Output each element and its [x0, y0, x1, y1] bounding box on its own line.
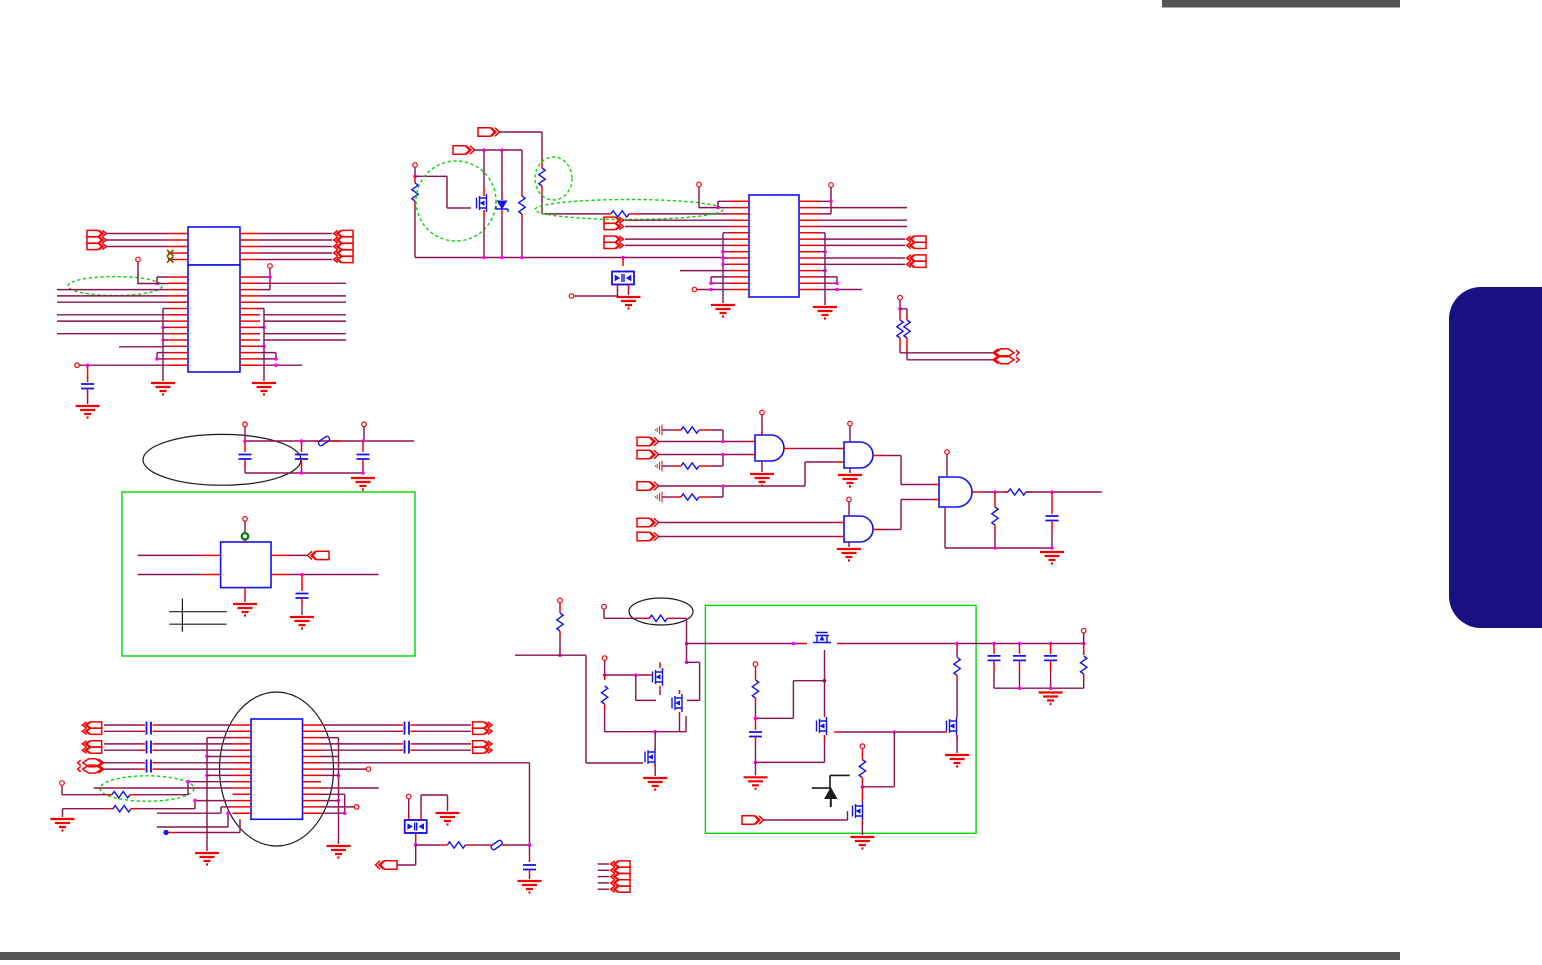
wire	[699, 187, 729, 208]
wire	[993, 644, 995, 655]
junction	[500, 256, 504, 260]
wire	[130, 794, 137, 796]
wire	[862, 732, 894, 787]
ground GND-H1	[643, 778, 667, 790]
wire	[604, 704, 606, 710]
ground GND-G4	[436, 813, 460, 825]
junction	[268, 275, 272, 279]
wire	[838, 449, 881, 463]
and-gate U5B	[844, 442, 873, 468]
ic U1 upper section	[188, 227, 240, 265]
wire	[944, 507, 946, 548]
power pin node V16	[602, 604, 607, 609]
wire	[260, 301, 346, 303]
wire	[140, 730, 145, 732]
junction	[262, 326, 266, 330]
wire	[314, 440, 341, 442]
transistor Q5	[813, 633, 831, 643]
highlight circle (green) around R2	[535, 157, 572, 200]
wire	[260, 233, 332, 235]
capacitor C11	[1044, 656, 1057, 661]
wire	[756, 681, 825, 719]
junction	[709, 288, 713, 292]
and-gate U5D	[939, 477, 972, 507]
wire	[679, 690, 681, 716]
connector G4a	[473, 722, 492, 728]
wire	[521, 218, 523, 258]
wire	[861, 787, 863, 824]
wire	[416, 844, 440, 846]
wire	[598, 869, 609, 871]
power pin node V3	[413, 163, 418, 168]
wire	[848, 542, 850, 547]
junction	[1018, 642, 1022, 646]
wire	[686, 644, 688, 663]
wire	[321, 730, 398, 732]
zener diode D1	[496, 201, 508, 213]
wire	[1083, 680, 1085, 688]
ic U3	[221, 542, 271, 588]
wire	[321, 806, 354, 808]
connector G3b	[78, 765, 104, 773]
connector J1 pin 3	[87, 243, 106, 249]
wire	[800, 643, 844, 645]
power pin U5D VCC	[945, 450, 950, 455]
wire	[321, 738, 339, 801]
bottom status bar	[0, 952, 1400, 960]
wire	[541, 194, 543, 214]
wire	[321, 787, 379, 789]
wire	[604, 675, 606, 680]
wire	[1083, 644, 1085, 656]
wire	[604, 609, 643, 618]
wire	[244, 521, 246, 533]
wire	[244, 468, 246, 473]
wire	[848, 502, 850, 516]
wire	[153, 762, 158, 764]
junction	[1050, 546, 1054, 550]
wire	[838, 523, 881, 537]
wire	[153, 724, 158, 726]
junction	[992, 642, 996, 646]
capacitor C1	[81, 384, 94, 389]
junction	[274, 363, 278, 367]
wire	[131, 808, 138, 810]
wire	[793, 448, 838, 450]
connector G3a	[78, 759, 104, 767]
junction	[155, 282, 159, 286]
wire	[501, 196, 503, 214]
wire	[994, 492, 996, 507]
wire	[488, 844, 491, 846]
wire	[163, 309, 168, 347]
pin stubs	[168, 234, 188, 260]
junction	[361, 439, 365, 443]
wire	[414, 201, 416, 206]
wire	[605, 710, 686, 732]
wire	[994, 525, 996, 530]
ferrite bead L1	[318, 436, 331, 447]
junction	[823, 269, 827, 273]
connector HX1a	[993, 349, 1019, 357]
capacitor CG4	[405, 722, 410, 735]
wire	[515, 655, 643, 763]
wire	[662, 496, 674, 498]
wire	[824, 714, 826, 740]
ground GND-F2	[838, 475, 862, 487]
wire	[153, 768, 158, 770]
wire	[994, 530, 996, 548]
wire	[415, 833, 417, 841]
junction	[86, 363, 90, 367]
wire	[598, 863, 609, 865]
wire	[1004, 491, 1008, 493]
junction	[1050, 490, 1054, 494]
wire	[637, 213, 729, 215]
wire	[605, 674, 648, 676]
junction	[361, 471, 365, 475]
wire	[834, 731, 840, 733]
ground GND-A2	[76, 406, 100, 418]
wire	[415, 257, 723, 259]
junction	[754, 761, 758, 765]
wire	[574, 291, 618, 296]
wire	[628, 291, 630, 295]
wire	[483, 218, 485, 258]
wire	[819, 208, 907, 227]
wire	[881, 456, 933, 485]
wire	[202, 555, 221, 574]
ground GND-F3	[837, 549, 861, 561]
wire	[712, 486, 723, 497]
wire	[654, 768, 656, 776]
power pin node V14	[406, 794, 411, 799]
highlight ellipse (black) around U4	[220, 692, 334, 846]
power pin node V4	[697, 182, 702, 187]
junction	[205, 774, 209, 778]
wire	[57, 320, 168, 322]
wire	[411, 730, 416, 732]
wire	[840, 731, 944, 733]
wire	[529, 856, 531, 862]
wire	[658, 454, 750, 456]
wire	[484, 150, 522, 196]
wire	[415, 749, 471, 751]
wire	[301, 441, 303, 452]
flag net IN_A	[637, 437, 659, 445]
wire	[260, 282, 346, 284]
junction	[721, 263, 725, 267]
capacitor CG1	[147, 722, 152, 735]
wire	[674, 465, 681, 467]
wire	[176, 819, 240, 832]
wire	[861, 824, 863, 835]
wire	[756, 740, 825, 762]
resistor R9	[681, 494, 699, 500]
wire	[755, 667, 757, 680]
wire	[107, 808, 113, 810]
ground GND-E1	[290, 617, 314, 629]
wire	[542, 213, 605, 215]
wire	[260, 327, 264, 346]
resistor R17	[601, 686, 607, 704]
wire	[415, 841, 417, 845]
wire	[501, 214, 503, 258]
power pin node V10	[243, 517, 248, 522]
wire	[106, 233, 168, 235]
transistor Q3	[672, 694, 682, 712]
wire	[900, 338, 907, 352]
wire	[506, 844, 530, 846]
wire	[529, 845, 531, 856]
ground GND-G1	[51, 819, 75, 831]
connector G5b	[473, 747, 492, 753]
wire	[605, 213, 611, 215]
wire	[699, 429, 712, 431]
wire	[900, 309, 907, 315]
junction	[829, 200, 833, 204]
junction	[634, 673, 638, 677]
transistor Q6	[817, 717, 827, 735]
wire	[244, 540, 246, 543]
ground GND-F1	[750, 474, 774, 486]
wire	[722, 233, 724, 303]
wire	[474, 149, 523, 151]
connector G2b	[82, 747, 101, 753]
wire	[622, 258, 624, 267]
resistor R1	[412, 183, 418, 201]
wire	[157, 768, 233, 770]
wire	[264, 315, 346, 340]
junction	[721, 453, 725, 457]
capacitor C7	[523, 865, 536, 870]
highlight box (green) around charger FET circuit	[705, 605, 976, 833]
capacitor C2	[239, 455, 252, 460]
wire	[321, 763, 530, 845]
connector J2 pin 3	[334, 243, 353, 249]
wire	[271, 555, 290, 574]
flag net IN_B	[637, 450, 659, 458]
wire	[260, 364, 302, 366]
wire	[415, 176, 471, 208]
wire	[625, 239, 729, 245]
wire	[362, 459, 364, 468]
junction	[993, 546, 997, 550]
wire	[104, 730, 140, 732]
navy side tab	[1449, 287, 1542, 628]
wire	[414, 168, 416, 177]
power pin node V20	[1081, 628, 1086, 633]
wire	[662, 465, 674, 467]
wire	[723, 233, 729, 264]
wire	[104, 762, 140, 764]
capacitor C3	[295, 455, 308, 460]
power pin node V9	[362, 422, 367, 427]
wire	[137, 782, 233, 795]
wire	[659, 664, 661, 690]
wire	[408, 814, 410, 820]
connector G1b	[82, 728, 101, 734]
connector J5 pin 3	[611, 874, 630, 880]
wire	[956, 735, 958, 740]
junction	[621, 256, 625, 260]
wire	[290, 574, 379, 576]
junction	[709, 281, 713, 285]
transistor Q1	[477, 194, 487, 212]
wire	[662, 429, 674, 431]
junction	[835, 281, 839, 285]
highlight box (green) around U3 circuit	[122, 492, 415, 656]
ground GND-B1	[617, 297, 641, 309]
wire	[87, 389, 89, 396]
wire	[260, 295, 346, 297]
net stub (blue dot)	[163, 830, 168, 835]
transistor Q8	[853, 802, 863, 820]
wire	[559, 603, 561, 613]
wire	[104, 768, 140, 770]
power pin node V5	[692, 287, 697, 292]
power pin node V7	[898, 295, 903, 300]
connector J2 pin 5	[334, 256, 353, 262]
wire	[687, 662, 700, 700]
wire	[499, 132, 543, 160]
wire	[321, 749, 398, 751]
junction	[337, 799, 341, 803]
junction	[835, 288, 839, 292]
wire	[153, 730, 158, 732]
wire	[62, 786, 107, 795]
wire	[57, 314, 168, 316]
wire	[697, 289, 729, 291]
wire	[157, 353, 168, 359]
pin stubs	[233, 725, 252, 813]
wire	[755, 704, 757, 718]
ground GND-H3	[945, 755, 969, 767]
junction	[155, 357, 159, 361]
wire	[398, 749, 403, 751]
wire	[57, 333, 168, 335]
annotation step mark (black)	[812, 775, 850, 788]
highlight ellipse (green) around R4 net	[535, 200, 723, 220]
wire	[956, 651, 958, 657]
power pin node V11	[60, 781, 65, 786]
resistor R15	[557, 613, 563, 631]
resistor R14	[447, 842, 465, 848]
wire	[244, 459, 246, 468]
wire	[824, 650, 826, 681]
capacitor CG3	[147, 759, 152, 772]
junction	[193, 799, 197, 803]
wire	[1026, 491, 1102, 493]
power tap 1	[655, 425, 662, 436]
wire	[625, 220, 729, 226]
wire	[245, 440, 414, 442]
wire	[415, 743, 471, 745]
junction	[823, 250, 827, 254]
wire	[900, 309, 907, 320]
wire	[397, 845, 416, 865]
transistor Q2	[653, 668, 663, 686]
wire	[980, 491, 1008, 493]
wire	[157, 277, 168, 284]
wire	[107, 794, 112, 796]
junction	[205, 755, 209, 759]
wire	[321, 794, 345, 813]
resistor R12	[112, 792, 130, 798]
wire	[87, 365, 89, 382]
wire	[849, 468, 851, 473]
wire	[421, 795, 448, 814]
no-connect X	[167, 250, 174, 256]
wire	[687, 643, 801, 645]
junction	[161, 326, 165, 330]
junction	[721, 440, 725, 444]
pin stubs	[240, 277, 260, 365]
junction	[300, 573, 304, 577]
wire	[244, 598, 246, 602]
wire	[414, 206, 416, 258]
resistor R21	[1081, 656, 1087, 674]
wire	[415, 730, 471, 732]
wire	[763, 811, 848, 820]
wire	[244, 588, 246, 598]
wire	[658, 462, 839, 486]
resistor R8	[681, 463, 699, 469]
connector flag FB1b	[604, 223, 623, 229]
ground GND-H4	[850, 837, 874, 849]
wire	[1083, 633, 1085, 643]
resistor R20	[859, 760, 865, 778]
pin stubs	[168, 277, 188, 365]
wire	[654, 732, 656, 748]
wire	[674, 618, 687, 643]
wire	[1019, 644, 1021, 655]
wire	[956, 644, 958, 652]
connector J5 pin 1	[611, 861, 630, 867]
flag net EN	[453, 146, 475, 154]
wire	[861, 749, 863, 760]
wire	[654, 748, 656, 768]
wire	[321, 724, 398, 726]
wire	[1051, 492, 1053, 514]
resistor R5	[897, 320, 903, 338]
wire	[1083, 674, 1085, 680]
wire	[157, 743, 233, 745]
wire	[679, 716, 681, 732]
wire	[956, 675, 958, 680]
wire	[541, 160, 543, 168]
power pin node VCC3	[268, 264, 273, 269]
wire	[819, 277, 837, 283]
wire	[465, 844, 472, 846]
capacitor C9	[988, 656, 1001, 661]
power pin U5C VCC	[847, 497, 852, 502]
wire	[658, 441, 750, 443]
capacitor C6	[1046, 516, 1059, 521]
wire	[472, 844, 488, 846]
wire	[755, 698, 757, 704]
wire	[140, 743, 145, 745]
junction	[955, 642, 959, 646]
wire	[529, 870, 531, 877]
junction (wire color)	[823, 679, 827, 683]
power pin node V18	[753, 662, 758, 667]
wire	[712, 455, 723, 467]
wire	[1050, 644, 1052, 655]
wire	[301, 468, 303, 473]
junction	[721, 484, 725, 488]
highlight circle (green) around Q1	[416, 161, 496, 241]
